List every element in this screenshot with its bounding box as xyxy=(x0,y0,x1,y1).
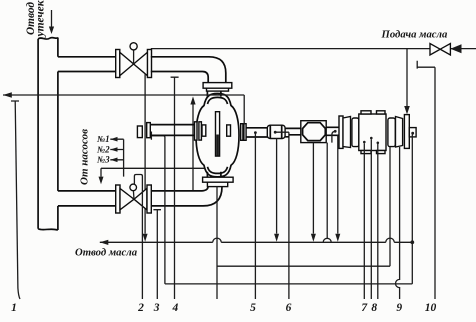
svg-text:8: 8 xyxy=(371,302,377,314)
svg-text:5: 5 xyxy=(250,302,256,314)
svg-text:От насосов: От насосов xyxy=(78,129,90,185)
svg-text:№2: №2 xyxy=(96,144,110,154)
svg-text:6: 6 xyxy=(286,302,292,314)
svg-text:3: 3 xyxy=(153,302,160,314)
svg-text:№1: №1 xyxy=(96,134,110,144)
svg-text:1: 1 xyxy=(11,302,17,314)
svg-text:утечек: утечек xyxy=(34,0,47,39)
svg-text:9: 9 xyxy=(396,302,402,314)
svg-text:7: 7 xyxy=(361,302,368,314)
svg-text:10: 10 xyxy=(425,302,437,314)
svg-text:2: 2 xyxy=(137,302,144,314)
svg-text:4: 4 xyxy=(172,302,179,314)
svg-text:№3: №3 xyxy=(96,155,110,165)
svg-text:Подача масла: Подача масла xyxy=(381,28,449,40)
svg-text:Отвод масла: Отвод масла xyxy=(75,247,138,259)
